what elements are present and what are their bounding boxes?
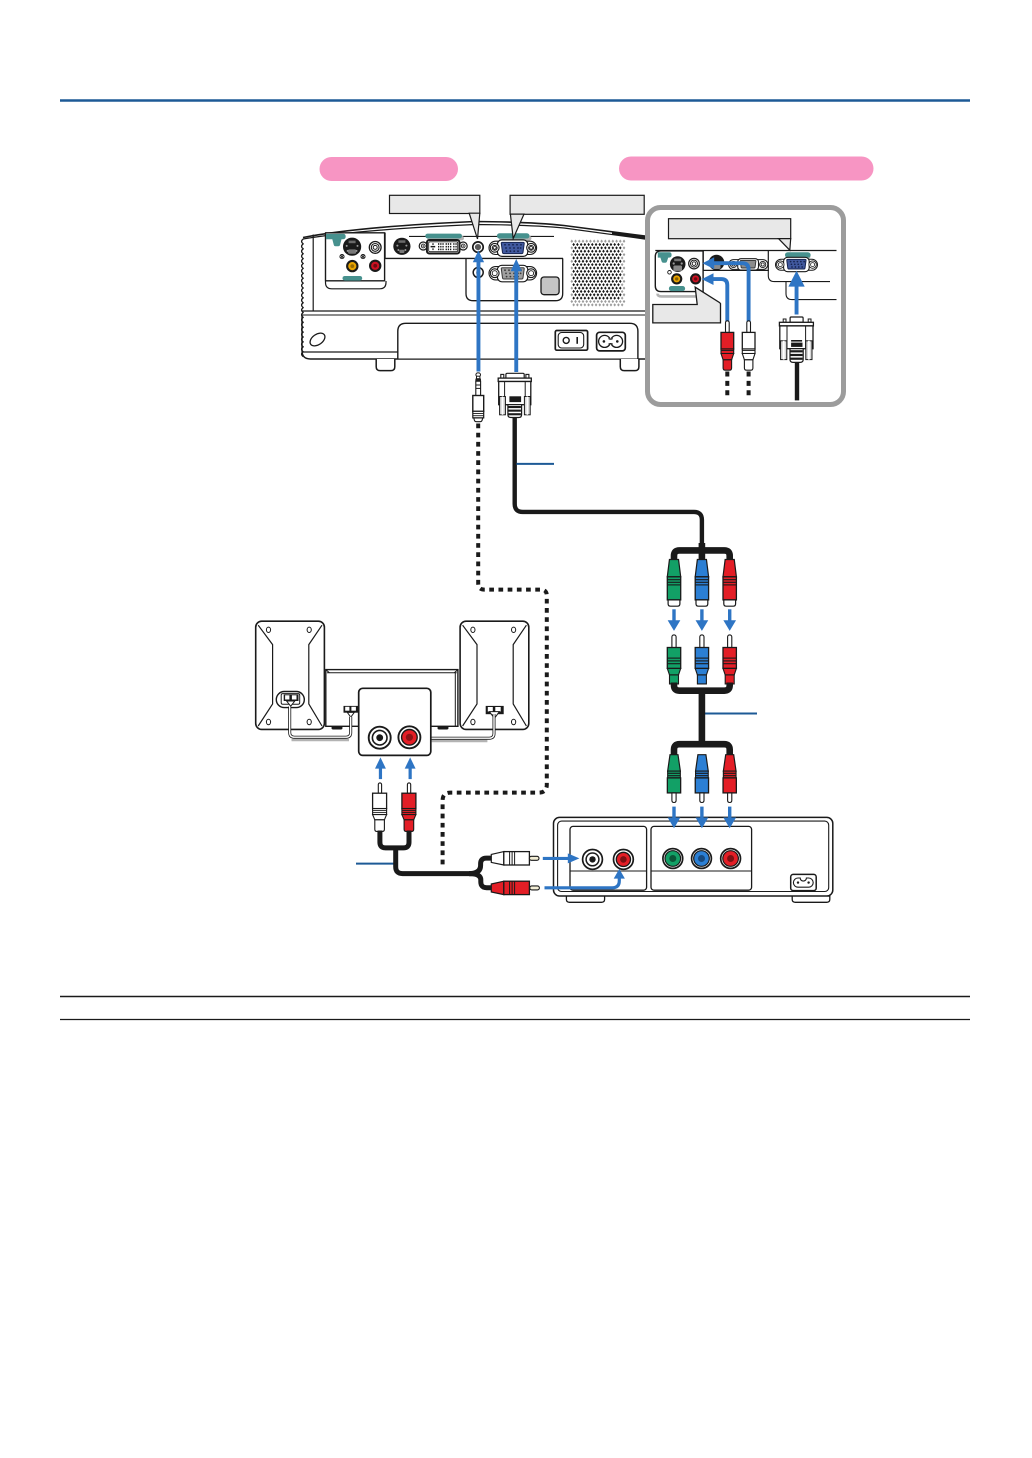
rear foot oval knob <box>308 330 328 348</box>
panel left vertical edge <box>312 235 314 312</box>
panel mid horizontal divider <box>385 257 563 259</box>
inset MONITOR OUT VGA (gray) <box>729 259 768 270</box>
inset VGA male plug <box>779 317 813 400</box>
blue male plug into DVD (down) <box>695 755 708 803</box>
callout box left (blank label) <box>390 195 480 239</box>
audio Y-cable <box>380 831 492 888</box>
VGA male plug (to COMPUTER IN cable) <box>498 373 531 417</box>
green male plug into DVD (down) <box>667 755 680 803</box>
teal pill above DVI with shadow <box>427 236 464 240</box>
inset middle DIN connector <box>709 255 725 271</box>
blue arrow into DVD green jack <box>668 807 681 829</box>
audio mini jack (AV section, ringed) <box>369 242 381 254</box>
inset section dividers <box>703 251 768 271</box>
inset blue arrow into COMPUTER IN <box>788 271 804 315</box>
left speaker terminal <box>276 692 304 708</box>
projector top face lower curve <box>303 225 649 240</box>
component cable red male plug (up) <box>723 635 736 684</box>
bottom band outline <box>302 315 649 359</box>
inset teal pill bottom <box>669 286 685 291</box>
leader line (audio cable) <box>356 863 394 865</box>
top rule <box>60 99 970 102</box>
inset red RCA cable with arrow into red jack <box>702 273 728 322</box>
3.5mm stereo mini plug <box>473 373 484 422</box>
inset step outline under VGA row <box>768 270 836 299</box>
DVD AC inlet <box>791 874 817 890</box>
component cable blue male plug (up) <box>695 635 708 684</box>
DVD left foot <box>566 896 604 902</box>
pink highlight pill right <box>619 157 874 181</box>
PC-control DIN connector <box>393 238 410 255</box>
inset panel top line <box>655 250 836 252</box>
white audio input jack <box>369 727 391 749</box>
component cable upper Y-split <box>674 543 730 561</box>
red audio input jack <box>398 726 420 748</box>
dashed audio cable from AUDIO jack to speaker cable junction <box>443 424 547 869</box>
component cable lower Y-split <box>674 744 730 755</box>
inset yellow RCA jack <box>671 273 682 284</box>
DVD player body <box>554 817 833 896</box>
blue arrow down (blue line) <box>696 609 709 631</box>
screw left in AV box <box>340 255 344 259</box>
adapter green plug (female, down) <box>667 560 680 607</box>
white RCA plug (up, to speaker box) <box>373 783 387 832</box>
teal tab top-left of AV box <box>326 234 346 246</box>
connector row top edge line <box>409 235 554 237</box>
blue arrow into DVD white jack <box>543 853 580 863</box>
DVD red component jack <box>721 849 741 869</box>
DVD green component jack <box>663 849 683 869</box>
projector body fill <box>302 222 650 360</box>
inset red RCA plug <box>721 321 734 400</box>
AC inlet (projector) <box>597 332 626 351</box>
teal pill bottom of AV box <box>343 276 363 281</box>
DVI connector <box>419 240 467 254</box>
S-Video connector (VIDEO section) <box>344 238 361 255</box>
leader line (15-pin to RCA cable) <box>517 463 555 465</box>
component cable green male plug (up) <box>667 635 680 684</box>
band left-section lower edge <box>303 351 398 353</box>
inset white RCA cable with arrow into audio jack <box>703 257 749 322</box>
VGA-to-component cable from VGA plug <box>515 417 702 547</box>
left foot <box>376 359 395 371</box>
body seam line 2 <box>302 314 649 316</box>
inset box background <box>648 208 844 405</box>
inset screw <box>668 271 672 275</box>
middle section divider <box>384 233 386 259</box>
red RCA plug (right, to DVD audio out) <box>491 881 539 894</box>
AV section box <box>326 233 385 281</box>
DVD right foot <box>792 896 830 902</box>
left speaker <box>256 621 325 729</box>
inset red RCA jack <box>690 273 701 284</box>
yellow video RCA jack <box>346 260 358 272</box>
bottom rule 2 <box>60 1019 970 1021</box>
vent grid <box>570 240 625 307</box>
red audio RCA jack <box>369 260 381 272</box>
blue arrow down (red line) <box>723 609 736 631</box>
blue arrow down (green line) <box>668 609 681 631</box>
adapter blue plug (female, down) <box>695 560 708 607</box>
inset ringed audio jack <box>689 258 700 269</box>
adapter red plug (female, down) <box>723 560 736 607</box>
blue arrow into DVD red jack <box>545 869 625 888</box>
teal pill above COMPUTER IN with shadow <box>499 236 532 241</box>
DVD white audio jack <box>583 850 603 870</box>
blue arrow into DVD red component jack <box>723 807 736 829</box>
DVD red audio jack <box>614 850 634 870</box>
red RCA plug (up, to speaker box) <box>402 783 416 832</box>
gray square button <box>541 277 559 295</box>
amplifier back panel <box>326 670 458 730</box>
speaker input box <box>359 688 431 755</box>
right foot <box>620 359 639 371</box>
amplifier terminal <box>344 706 359 717</box>
pink highlight pill left <box>320 157 459 181</box>
DVD component out panel <box>651 826 752 890</box>
inset teal pill above COMPUTER IN <box>787 254 811 258</box>
inset gray border <box>648 208 844 405</box>
DVD inner outline <box>558 821 829 891</box>
DVD blue component jack <box>692 849 712 869</box>
screw right in AV box <box>361 255 365 259</box>
DVD audio out panel <box>570 826 647 890</box>
white RCA plug (right, to DVD audio out) <box>491 852 539 865</box>
audio mini jack AUDIO IN (main) <box>473 242 483 252</box>
bottom recessed panel <box>398 323 638 358</box>
right speaker <box>460 621 529 729</box>
inset gray callout polygon (blank label) <box>653 287 721 323</box>
inset teal tab <box>658 252 672 262</box>
inset AV section box <box>655 251 703 292</box>
blue arrow into DVD blue jack <box>696 807 709 829</box>
left speaker wire <box>290 707 351 740</box>
blue arrow up into red jack <box>405 757 416 779</box>
main power switch <box>555 331 587 351</box>
inset AV box gray lip shadow <box>658 294 699 297</box>
right speaker wire <box>431 714 494 741</box>
COMPUTER IN VGA connector (blue) <box>489 240 537 257</box>
body seam line 1 <box>302 310 649 312</box>
component cable merge joint <box>674 683 730 748</box>
projector top right dark wedge <box>612 232 649 240</box>
MONITOR OUT VGA connector (gray) <box>489 265 537 282</box>
lower recess rounded box <box>466 258 563 300</box>
inset white RCA plug <box>742 321 755 400</box>
inset S-Video connector <box>670 256 686 272</box>
blue arrow up into white jack <box>375 757 386 779</box>
projector top edge curve <box>303 222 649 238</box>
inset COMPUTER IN VGA (blue) <box>776 257 818 271</box>
callout box right (blank label) <box>510 195 644 238</box>
AV section recess lip <box>326 281 387 289</box>
half-visible audio-out jack <box>473 268 483 278</box>
bottom rule 1 <box>60 996 970 998</box>
red male plug into DVD (down) <box>723 755 736 803</box>
left fin wavy edge <box>302 239 304 357</box>
right speaker terminal <box>486 706 504 714</box>
inset callout box (blank label) <box>669 219 791 251</box>
blue arrow into AUDIO IN jack <box>473 250 484 371</box>
leader line (component video cable) <box>702 713 757 715</box>
blue arrow into COMPUTER IN port <box>511 259 522 372</box>
